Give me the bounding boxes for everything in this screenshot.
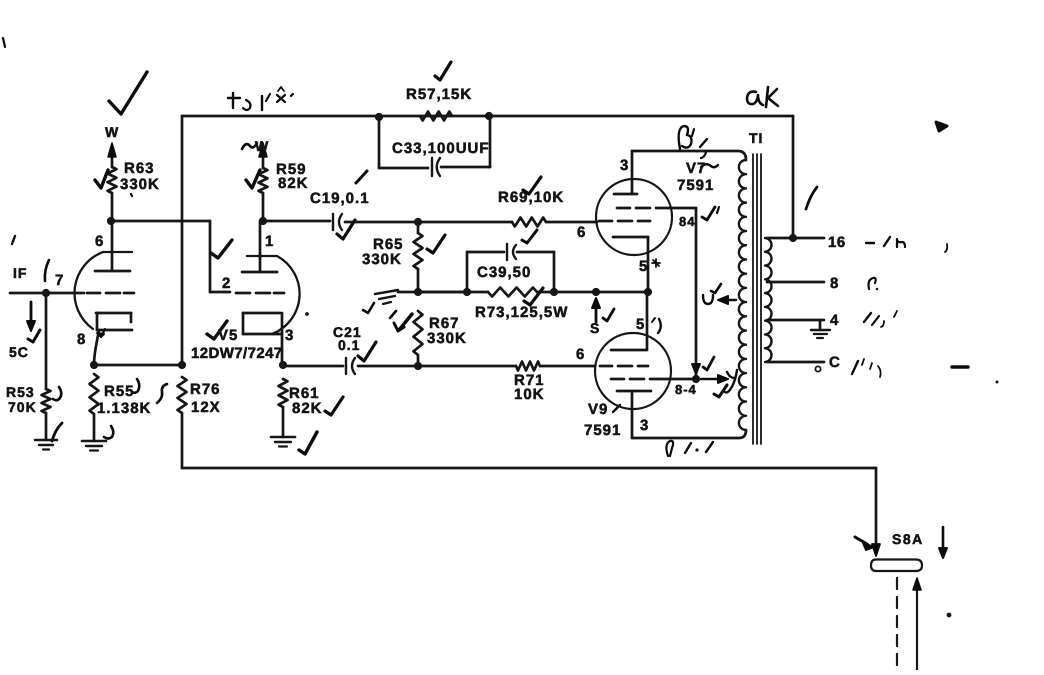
svg-text:6: 6 xyxy=(577,224,586,241)
svg-text:V7: V7 xyxy=(686,160,706,177)
svg-text:5: 5 xyxy=(639,258,648,275)
svg-text:10K: 10K xyxy=(514,386,545,403)
svg-text:R63: R63 xyxy=(124,160,155,177)
svg-text:7591: 7591 xyxy=(677,177,714,194)
svg-text:IF: IF xyxy=(13,265,27,281)
svg-text:3: 3 xyxy=(640,417,649,434)
svg-text:8: 8 xyxy=(830,275,839,292)
svg-text:6: 6 xyxy=(576,346,585,363)
svg-text:330K: 330K xyxy=(427,330,467,347)
svg-text:TI: TI xyxy=(749,130,763,146)
svg-text:V5: V5 xyxy=(218,327,238,344)
svg-text:84: 84 xyxy=(679,214,695,229)
svg-text:7591: 7591 xyxy=(584,422,621,439)
svg-text:C: C xyxy=(829,354,841,371)
svg-text:S8A: S8A xyxy=(892,531,924,547)
svg-text:330K: 330K xyxy=(120,176,160,193)
svg-text:0.1: 0.1 xyxy=(338,337,360,353)
svg-text:6: 6 xyxy=(95,233,104,250)
svg-text:3: 3 xyxy=(285,327,294,344)
svg-text:330K: 330K xyxy=(362,251,402,268)
svg-text:R73,125,5W: R73,125,5W xyxy=(475,304,568,321)
svg-text:C39,50: C39,50 xyxy=(477,264,531,281)
svg-text:R53: R53 xyxy=(6,384,35,400)
svg-text:2: 2 xyxy=(222,275,231,292)
svg-text:8-4: 8-4 xyxy=(675,382,697,397)
svg-text:5: 5 xyxy=(636,316,645,333)
svg-text:12X: 12X xyxy=(191,399,221,416)
svg-text:R76: R76 xyxy=(190,381,221,398)
svg-text:70K: 70K xyxy=(8,399,37,415)
svg-text:4: 4 xyxy=(830,312,839,329)
svg-text:7: 7 xyxy=(55,272,64,289)
svg-text:S: S xyxy=(590,320,600,336)
svg-text:R69,10K: R69,10K xyxy=(498,189,564,206)
svg-text:W: W xyxy=(255,138,269,154)
svg-text:R55: R55 xyxy=(104,383,135,400)
svg-text:82K: 82K xyxy=(292,400,323,417)
svg-text:82K: 82K xyxy=(278,175,309,192)
svg-text:V9: V9 xyxy=(588,401,608,418)
svg-text:C19,0.1: C19,0.1 xyxy=(310,190,370,207)
svg-text:W: W xyxy=(105,124,119,140)
svg-text:1.138K: 1.138K xyxy=(97,400,151,417)
svg-text:C33,100UUF: C33,100UUF xyxy=(392,140,490,157)
svg-text:5C: 5C xyxy=(9,344,29,360)
svg-text:1: 1 xyxy=(265,233,274,250)
svg-text:R57,15K: R57,15K xyxy=(406,86,472,103)
svg-text:8: 8 xyxy=(77,331,86,348)
svg-text:16: 16 xyxy=(828,234,846,251)
svg-text:12DW7/7247: 12DW7/7247 xyxy=(191,345,283,362)
svg-text:3: 3 xyxy=(620,157,629,174)
